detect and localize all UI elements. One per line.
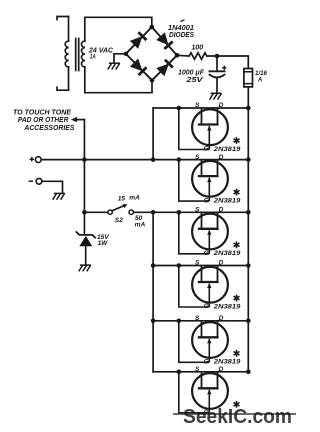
wire rail 2 from + terminal — [41, 159, 248, 161]
wire minus terminal to ground — [42, 181, 63, 193]
svg-text:S: S — [195, 154, 200, 161]
asterisk footnote mark Q1 — [234, 137, 240, 144]
junction rail4 left bus — [151, 263, 156, 268]
svg-text:S: S — [195, 102, 200, 109]
wire rail 3 from switch contact — [133, 211, 248, 213]
svg-text:S2: S2 — [115, 217, 123, 224]
terminal minus — [36, 178, 42, 184]
zener diode D5 anode triangle — [79, 236, 92, 246]
svg-text:DIODES: DIODES — [169, 30, 194, 39]
wire primary bottom lead — [68, 67, 70, 90]
diode D3 bridge bottom-left — [130, 59, 146, 75]
wire AC input bottom stub — [57, 87, 69, 90]
svg-text:SeekIC.com: SeekIC.com — [183, 406, 292, 428]
wire bridge right vertex to resistor — [177, 54, 189, 57]
junction rail3 left bus — [151, 210, 156, 215]
wire capacitor tap down — [216, 56, 218, 71]
capacitor plus sign — [222, 66, 226, 70]
asterisk footnote mark Q3 — [234, 241, 240, 248]
diode D4 bridge bottom-right — [157, 60, 173, 76]
junction gate loop rail 2 — [177, 157, 182, 162]
svg-text:2N3819: 2N3819 — [213, 359, 241, 366]
junction bridge left vertex — [124, 52, 129, 57]
transistor Q4 2N3819 — [192, 266, 228, 308]
asterisk footnote mark Q4 — [234, 295, 240, 302]
svg-text:mA: mA — [129, 195, 140, 202]
junction gate loop rail 5 — [177, 319, 182, 324]
svg-text:G: G — [204, 197, 209, 204]
wire primary top lead — [68, 17, 70, 42]
switch S2 blade arrowhead — [123, 204, 128, 208]
wire right bus — [247, 108, 249, 372]
junction bridge top vertex — [150, 25, 155, 30]
junction main vertical at rail2 — [82, 157, 87, 162]
asterisk footnote mark Q6 — [234, 401, 240, 408]
svg-text:D: D — [219, 154, 224, 161]
svg-text:S: S — [195, 366, 200, 373]
junction right bus rail 5 — [246, 319, 251, 324]
wire AC input top stub — [57, 17, 69, 20]
wire resistor to right bus corner — [207, 56, 249, 69]
wire gate loop Q5 — [179, 321, 210, 363]
svg-text:A: A — [257, 77, 263, 84]
capacitor C1 positive plate — [210, 70, 225, 72]
svg-text:D: D — [219, 315, 224, 322]
switch S2 blade — [112, 205, 124, 210]
svg-text:D: D — [219, 207, 224, 214]
wire secondary top to bridge top vertex — [85, 17, 152, 41]
svg-text:2N3819: 2N3819 — [213, 197, 241, 204]
asterisk footnote mark Q2 — [234, 189, 240, 196]
diode D2 bridge top-right — [157, 33, 173, 49]
svg-text:100: 100 — [192, 45, 204, 52]
ground below zener — [79, 265, 91, 271]
terminal plus — [35, 157, 41, 163]
plus sign — [30, 157, 34, 161]
svg-text:S: S — [195, 207, 200, 214]
junction rail2 left bus — [151, 157, 156, 162]
ground below minus terminal — [53, 193, 65, 199]
svg-text:D: D — [219, 102, 224, 109]
wire switch pole lead — [84, 211, 108, 213]
junction right bus rail 1 — [246, 106, 251, 111]
wire gate loop Q2 — [179, 160, 210, 202]
wire fuse bottom to rail 1 — [247, 87, 249, 108]
svg-text:G: G — [204, 146, 209, 153]
wire gate loop Q4 — [179, 266, 210, 308]
svg-text:D: D — [219, 260, 224, 267]
pointer dash above 1N4001 — [181, 20, 185, 22]
wire left bus rail3 to rail6 — [152, 212, 154, 371]
minus sign — [29, 180, 33, 182]
junction rail5 left bus — [151, 319, 156, 324]
switch S2 throw contact — [129, 210, 133, 214]
ground at bridge left vertex — [108, 63, 120, 69]
svg-text:2N3819: 2N3819 — [213, 146, 241, 153]
wire gate loop Q6 — [179, 372, 210, 413]
capacitor C1 negative curved plate — [210, 75, 225, 78]
wire rail 5 — [153, 320, 248, 322]
svg-text:G: G — [204, 250, 209, 257]
wire bridge left vertex to ground — [114, 54, 126, 63]
transistor Q5 2N3819 — [192, 321, 228, 363]
transformer T1 secondary winding — [81, 41, 84, 67]
transistor Q6 2N3819 — [192, 372, 228, 413]
wire zener to ground — [85, 246, 87, 265]
junction capacitor tap — [215, 54, 220, 59]
arrow to accessories — [71, 117, 77, 122]
junction gate loop rail 6 — [177, 370, 182, 375]
wire accessories arrow lead — [77, 119, 85, 121]
fuse F1 body — [244, 69, 253, 87]
transistor Q1 2N3819 — [192, 108, 228, 150]
zener diode D5 cathode bar — [76, 231, 96, 238]
svg-text:15: 15 — [118, 196, 126, 203]
junction gate loop rail 4 — [177, 263, 182, 268]
wire bridge diamond — [126, 27, 177, 80]
svg-text:2N3819: 2N3819 — [213, 303, 241, 310]
junction right bus rail 4 — [246, 263, 251, 268]
junction gate loop rail 3 — [177, 210, 182, 215]
asterisk footnote mark Q5 — [234, 350, 240, 357]
svg-text:2N3819: 2N3819 — [213, 250, 241, 257]
wire left bus rail1 to rail2 — [152, 108, 154, 160]
ground below capacitor — [210, 93, 222, 99]
svg-text:G: G — [204, 359, 209, 366]
wire gate loop Q1 — [179, 108, 210, 150]
svg-text:S: S — [195, 260, 200, 267]
wire main vertical + to zener — [83, 120, 85, 234]
junction bridge right vertex — [175, 53, 180, 58]
svg-text:D: D — [219, 366, 224, 373]
junction right bus rail 2 — [246, 157, 251, 162]
transformer T1 core — [76, 39, 79, 71]
resistor R1 100 — [189, 53, 207, 59]
transistor Q3 2N3819 — [192, 212, 228, 254]
wire rail 6 — [153, 371, 248, 373]
svg-text:25V: 25V — [185, 75, 204, 84]
watermark strike line — [173, 413, 296, 415]
svg-text:1A: 1A — [90, 54, 96, 61]
svg-text:S: S — [195, 315, 200, 322]
transformer T1 primary winding — [65, 41, 68, 67]
svg-text:1W: 1W — [98, 240, 109, 247]
wire capacitor to ground — [216, 78, 218, 93]
fuse F1 end caps — [244, 72, 253, 84]
wire gate loop Q3 — [179, 212, 210, 254]
junction gate loop rail 1 — [177, 106, 182, 111]
wire rail 4 — [153, 265, 248, 267]
switch S2 pole contact — [108, 210, 112, 214]
transistor Q2 2N3819 — [192, 160, 228, 202]
junction main vertical at switch — [82, 210, 87, 215]
svg-text:G: G — [204, 303, 209, 310]
junction bridge bottom vertex — [150, 78, 155, 83]
junction right bus rail 6 — [246, 370, 251, 375]
svg-text:mA: mA — [135, 221, 146, 228]
svg-text:ACCESSORIES: ACCESSORIES — [23, 123, 74, 132]
wire rail 1 — [153, 107, 248, 109]
junction right bus rail 3 — [246, 210, 251, 215]
wire secondary bottom to bridge bottom vertex — [85, 67, 152, 93]
diode D1 bridge top-left — [130, 32, 146, 48]
